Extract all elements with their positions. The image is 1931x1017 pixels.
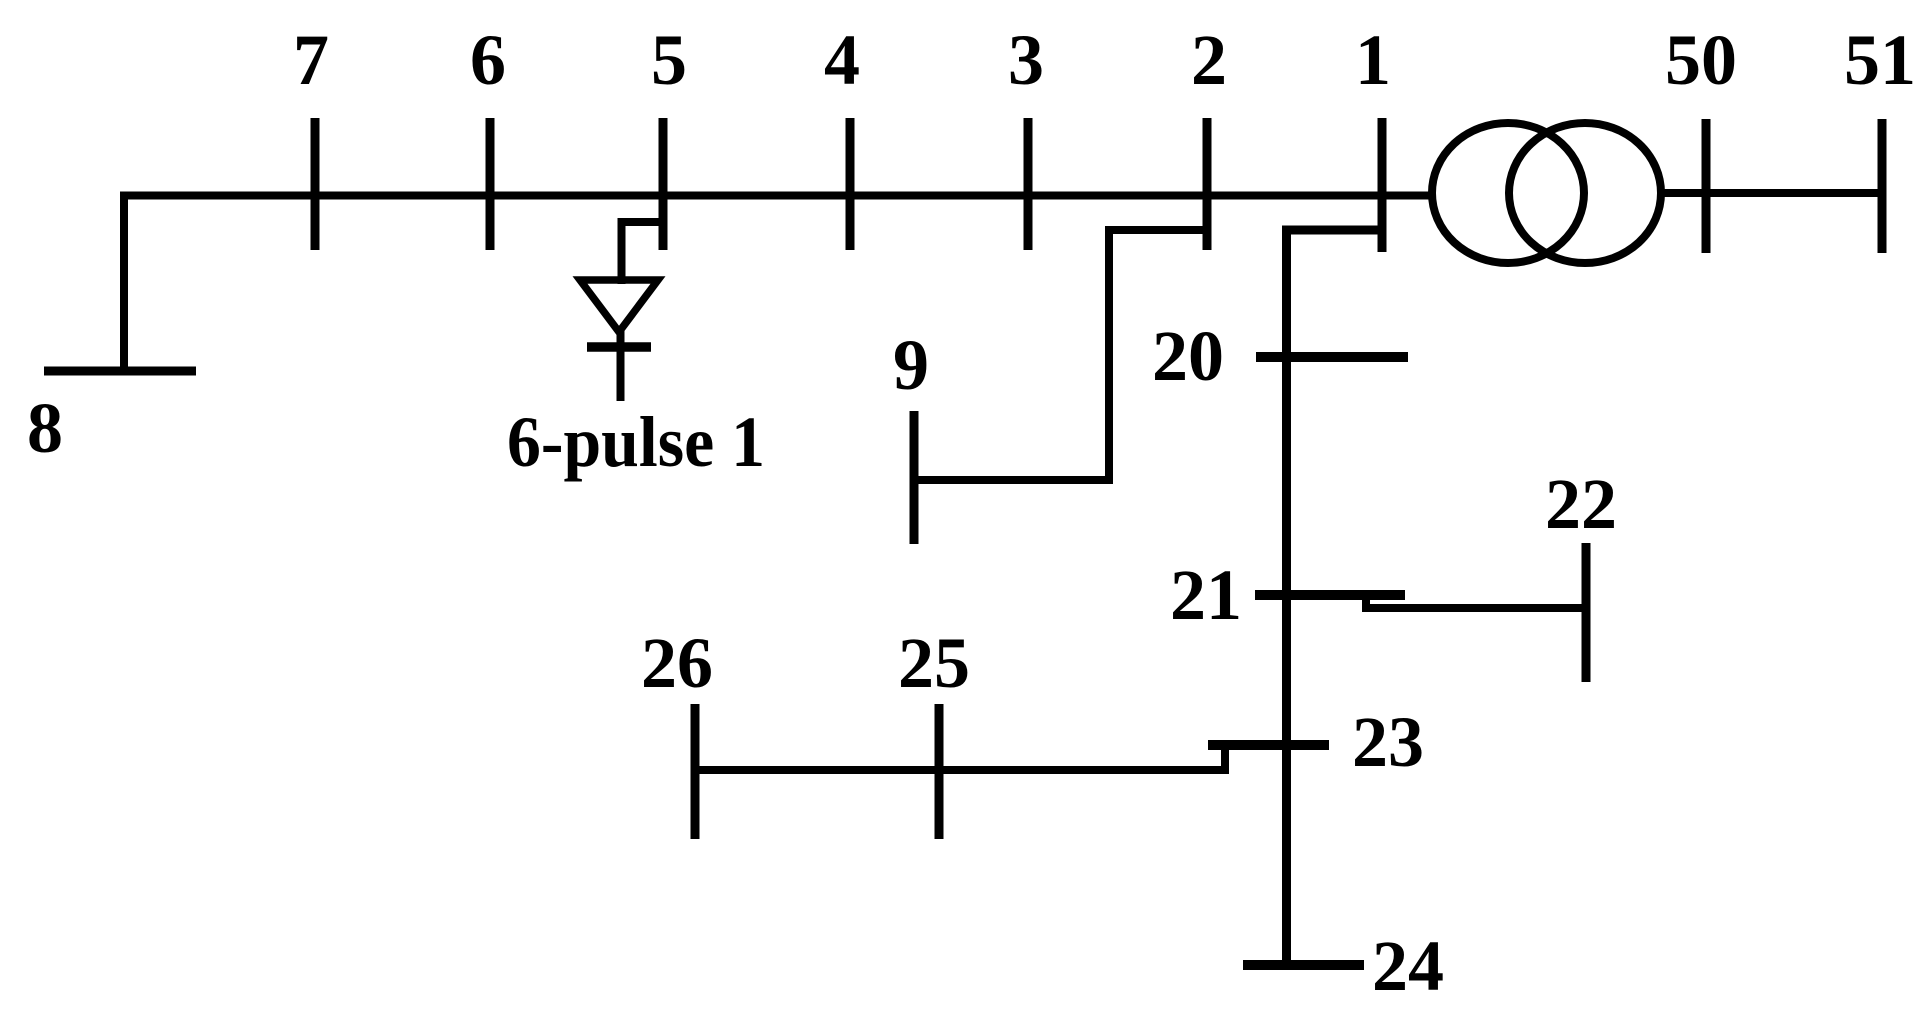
svg-text:51: 51 — [1844, 20, 1916, 100]
wire drop from main bus left end down to bus 8 — [120, 192, 128, 376]
wire bus 5 to 6-pulse converter — [622, 222, 664, 284]
bus 8 bar — [44, 367, 196, 376]
svg-text:7: 7 — [293, 20, 329, 100]
svg-text:4: 4 — [824, 20, 860, 100]
6-pulse converter diode cathode bar — [587, 342, 651, 352]
bus 4 bar — [846, 118, 855, 250]
wire bus 1 trunk down through buses 20 21 23 to 24 — [1287, 230, 1383, 970]
bus 9 bar — [910, 411, 919, 544]
svg-text:22: 22 — [1545, 464, 1617, 544]
svg-text:25: 25 — [898, 623, 970, 703]
wire bus 2 to bus 9 — [914, 230, 1207, 480]
svg-text:5: 5 — [651, 20, 687, 100]
bus 6 bar — [486, 118, 495, 250]
bus 3 bar — [1024, 118, 1033, 250]
wire transformer secondary to bus 51 — [1659, 189, 1882, 197]
svg-text:50: 50 — [1665, 20, 1737, 100]
bus 1 bar — [1378, 118, 1387, 252]
transformer T1 secondary winding — [1509, 123, 1661, 263]
wire buses 26 and 25 to bus 23 — [695, 745, 1225, 770]
svg-text:24: 24 — [1372, 926, 1444, 1006]
bus 2 bar — [1203, 118, 1212, 250]
bus 25 bar — [935, 704, 944, 839]
svg-text:2: 2 — [1191, 20, 1227, 100]
bus 24 bar — [1243, 960, 1364, 970]
bus 23 bar — [1208, 740, 1329, 750]
bus 7 bar — [311, 118, 320, 250]
wire main feeder bus (buses 7..1 to transformer) — [120, 192, 1429, 200]
svg-text:23: 23 — [1352, 702, 1424, 782]
bus 51 bar — [1878, 119, 1887, 253]
svg-text:3: 3 — [1008, 20, 1044, 100]
6-pulse converter diode anode triangle — [580, 280, 658, 332]
svg-text:21: 21 — [1170, 555, 1242, 635]
bus 22 bar — [1582, 543, 1591, 682]
svg-text:26: 26 — [641, 623, 713, 703]
bus 5 bar — [659, 118, 668, 250]
wire bus 21 to bus 22 — [1366, 595, 1586, 608]
6-pulse converter diode cathode lead — [617, 326, 625, 401]
svg-text:20: 20 — [1152, 316, 1224, 396]
bus 21 bar — [1255, 590, 1405, 600]
bus 26 bar — [691, 704, 700, 839]
transformer T1 primary winding — [1432, 123, 1584, 263]
svg-text:8: 8 — [27, 388, 63, 468]
svg-text:9: 9 — [893, 325, 929, 405]
svg-text:6: 6 — [470, 20, 506, 100]
bus 20 bar — [1256, 352, 1408, 362]
svg-text:6-pulse 1: 6-pulse 1 — [507, 402, 765, 482]
bus 50 bar — [1702, 119, 1711, 253]
svg-text:1: 1 — [1355, 20, 1391, 100]
